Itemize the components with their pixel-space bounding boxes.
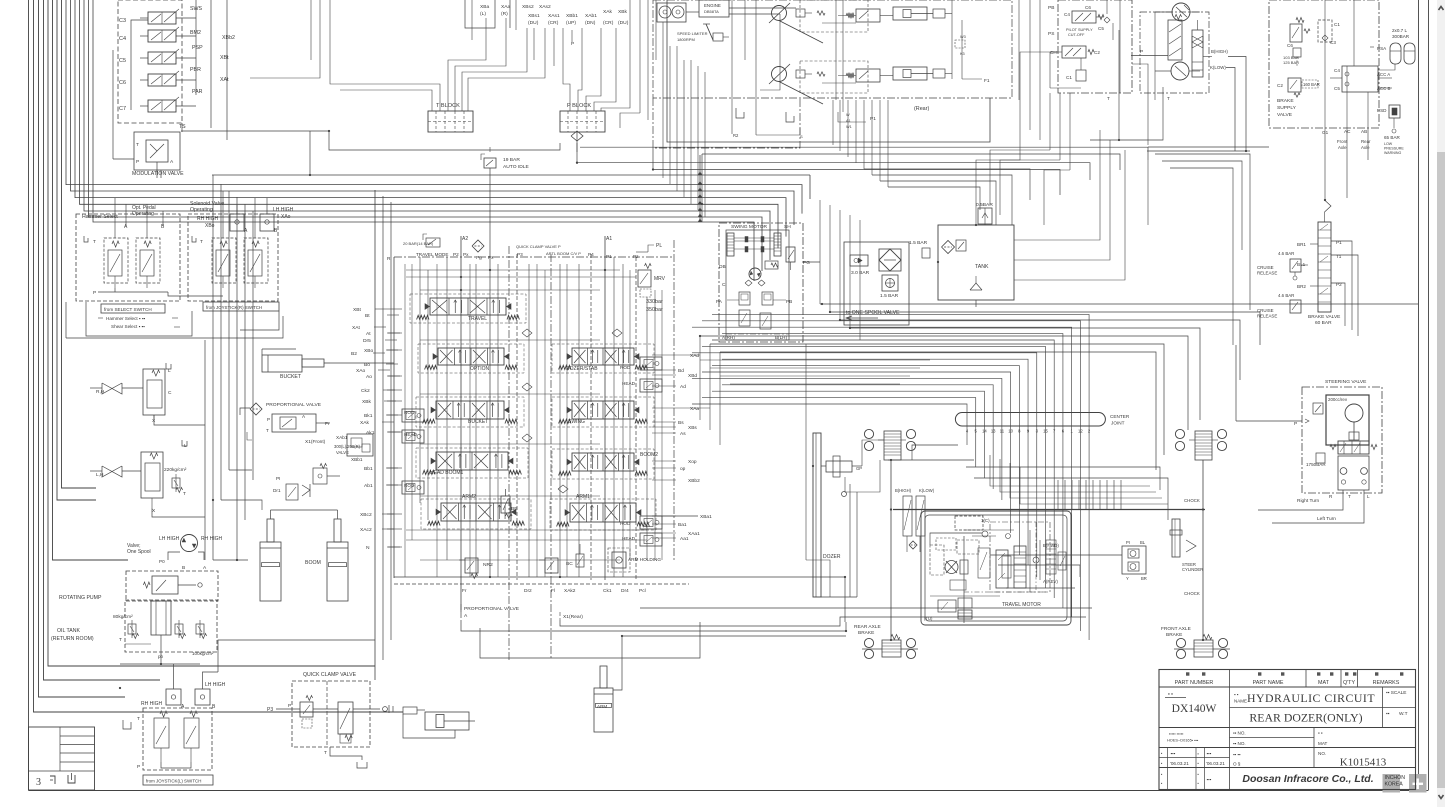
port label PAR	[192, 89, 203, 95]
net label (DU)	[528, 20, 539, 26]
wires t block up	[250, 0, 440, 111]
net label At	[366, 331, 400, 337]
wire right edge verticals	[1014, 12, 1155, 280]
svg-text:Left Turn: Left Turn	[1317, 516, 1336, 522]
valve DOZER/STAB	[559, 348, 648, 372]
svg-text:CUT-OFF: CUT-OFF	[1068, 33, 1085, 37]
svg-text:BOOM2: BOOM2	[640, 452, 658, 458]
wire bucket link	[240, 363, 394, 415]
wire bsv down links	[1325, 60, 1412, 200]
label X1 Rear	[560, 612, 583, 620]
wire main bus	[75, 0, 786, 237]
svg-text:W3: W3	[960, 35, 966, 39]
wire tr extra h	[864, 140, 1260, 240]
pump regulator 1	[838, 9, 880, 22]
svg-text:K3: K3	[960, 52, 965, 56]
svg-text:▪ ▪: ▪ ▪	[1318, 731, 1323, 736]
svg-text:XBb1: XBb1	[566, 13, 578, 19]
valve BOOM1	[423, 452, 522, 476]
label 1C	[955, 516, 990, 530]
svg-text:B: B	[182, 565, 185, 571]
solenoid valve C5	[119, 49, 196, 64]
net label XAa1	[688, 531, 700, 537]
wire lh bottom routes	[51, 468, 140, 688]
servo piston 1	[893, 7, 952, 20]
net label Bk1	[364, 413, 398, 419]
svg-text:HEAD: HEAD	[622, 381, 636, 386]
bsv c4 c5 block	[1334, 66, 1392, 92]
check pi dr1	[273, 464, 340, 501]
svg-text:Bk1: Bk1	[364, 413, 373, 419]
wire left bus line	[44, 0, 161, 680]
svg-text:LOW: LOW	[1384, 142, 1393, 146]
valve SWING	[559, 401, 648, 425]
valve NR2	[459, 558, 493, 579]
label T BLOCK	[436, 103, 460, 109]
wire drawing right border inner	[1418, 0, 1420, 791]
pilot valve c4	[1072, 11, 1104, 23]
travel mode group	[403, 234, 469, 257]
net label XBs	[688, 425, 697, 431]
wire left bus line	[34, 0, 404, 712]
valve enclosure DOZER/STAB	[552, 344, 654, 373]
svg-text:XAa1: XAa1	[688, 531, 700, 537]
wire bus vertical x700	[699, 155, 701, 222]
check block RODa	[620, 516, 662, 529]
svg-text:ROD: ROD	[404, 483, 415, 488]
label BFWD	[1043, 543, 1059, 548]
svg-text:XAb1: XAb1	[336, 435, 348, 440]
net label Ao	[366, 374, 400, 380]
svg-text:Ak1: Ak1	[366, 430, 375, 436]
label BR2	[1297, 284, 1318, 289]
label Opt Pedal Operating	[132, 205, 156, 217]
manifold dashdot v2	[508, 246, 510, 660]
svg-text:XAt: XAt	[220, 77, 229, 83]
joystick L valve 2	[184, 711, 199, 762]
svg-text:BRAKE VALVE: BRAKE VALVE	[1308, 314, 1340, 320]
svg-text:TS: TS	[179, 124, 186, 130]
label RH HIGH XBo	[197, 216, 219, 229]
svg-text:1.5 BAR: 1.5 BAR	[909, 240, 928, 246]
label A2	[244, 228, 278, 234]
svg-text:R2: R2	[733, 133, 739, 138]
wire bottom steps right	[461, 608, 1092, 631]
svg-text:PILOT SUPPLY: PILOT SUPPLY	[1066, 28, 1093, 32]
svg-text:C: C	[722, 282, 726, 288]
label A	[124, 224, 128, 230]
wire tr verticals	[833, 0, 1040, 163]
wire drawing bottom border	[29, 790, 1429, 792]
svg-text:OIL TANK: OIL TANK	[57, 628, 81, 634]
label left turn	[1317, 516, 1336, 522]
wire brake valve right	[1245, 241, 1358, 336]
svg-text:One Spool: One Spool	[127, 549, 151, 555]
svg-text:K1015413: K1015413	[1340, 757, 1387, 769]
label 100kg	[192, 651, 214, 656]
svg-text:As: As	[680, 431, 686, 437]
label LH HIGH 2	[205, 682, 226, 688]
svg-text:Front: Front	[1337, 139, 1348, 144]
svg-text:XAk2: XAk2	[564, 588, 576, 594]
wire swing bottom	[726, 333, 789, 335]
svg-text:T: T	[137, 716, 140, 722]
svg-text:(R): (R)	[501, 11, 508, 17]
svg-text:C2: C2	[1094, 50, 1100, 55]
wire bsv verticals	[1325, 0, 1390, 130]
swing motor gears	[727, 233, 781, 256]
label PSA	[1370, 46, 1387, 51]
swing relief pair	[727, 292, 786, 305]
label BR1	[1297, 242, 1318, 247]
svg-text:14: 14	[982, 429, 987, 434]
wire pilot inner	[1050, 0, 1120, 93]
net label Ad	[680, 384, 686, 390]
net label XAk	[360, 420, 394, 426]
quick clamp box	[292, 681, 370, 747]
label 1.5 bar top	[909, 240, 930, 258]
svg-text:P: P	[137, 764, 140, 770]
wire swing links	[712, 262, 820, 336]
port label BM2	[190, 30, 235, 41]
label C5 C3	[1098, 17, 1110, 31]
net label Bd	[678, 368, 684, 374]
accumulators	[1390, 28, 1415, 64]
valve enclosure SWING	[552, 397, 654, 427]
T block	[428, 111, 473, 132]
front axle brake block	[1174, 635, 1230, 659]
label front axle	[1337, 139, 1348, 150]
wire rh-lh links	[152, 340, 205, 560]
svg-text:Pg: Pg	[476, 255, 482, 260]
bk valve stack	[903, 496, 925, 552]
net label XAs2	[539, 4, 551, 10]
svg-text:C4: C4	[119, 36, 126, 42]
svg-text:C2: C2	[1277, 83, 1283, 88]
rear axle shaft	[890, 460, 892, 640]
steering inner	[1326, 395, 1369, 445]
net label As	[680, 431, 686, 437]
svg-text:C7: C7	[119, 106, 126, 112]
tm shaft	[958, 536, 972, 623]
tm valve column	[996, 546, 1026, 588]
joystick valve sel 1	[212, 238, 236, 288]
swing relief pair 2	[739, 310, 771, 329]
net label Ak1	[366, 430, 400, 436]
check block ROD2	[402, 481, 424, 494]
net label XBs1	[528, 13, 540, 19]
joystick select box	[188, 214, 278, 301]
cruise release 1	[1257, 251, 1308, 280]
svg-text:A(REV): A(REV)	[1043, 579, 1058, 584]
svg-text:4.6 BAR: 4.6 BAR	[1278, 293, 1294, 298]
svg-text:ACC B: ACC B	[1377, 86, 1390, 91]
svg-text:XAk: XAk	[603, 9, 613, 15]
svg-text:Dr5: Dr5	[363, 338, 371, 344]
svg-text:R,H: R,H	[96, 389, 105, 395]
svg-text:TRAVEL: TRAVEL	[468, 316, 487, 322]
bsv c2	[1277, 78, 1320, 97]
net label Aa1	[680, 536, 689, 542]
svg-text:PSP: PSP	[192, 45, 203, 51]
svg-text:B(FWD): B(FWD)	[1043, 543, 1059, 548]
svg-text:TANK: TANK	[975, 264, 989, 270]
pump solid frame	[667, 0, 990, 142]
from JOYSTICK R box	[203, 302, 279, 311]
label PROPORTIONAL VALVE A	[461, 604, 520, 620]
svg-text:HEAD: HEAD	[404, 432, 418, 437]
manifold bottom ports	[462, 588, 646, 594]
svg-text:O §: O §	[1233, 762, 1241, 767]
wire bottom-left joystick routes	[131, 560, 380, 768]
solenoid valve C6	[119, 71, 196, 86]
wire main bus	[89, 0, 763, 271]
svg-text:W1: W1	[846, 125, 852, 129]
svg-text:NO.: NO.	[1318, 751, 1326, 756]
acc valve2	[1192, 20, 1203, 77]
net label XBc2	[360, 512, 394, 518]
svg-text:Fr: Fr	[462, 588, 467, 594]
wire dozer links	[821, 440, 884, 492]
svg-text:1800RPM: 1800RPM	[677, 37, 695, 42]
svg-text:▪▪▪▪▪ ▪▪▪▪▪: ▪▪▪▪▪ ▪▪▪▪▪	[1169, 732, 1184, 736]
wire acc valve outputs	[1090, 30, 1250, 151]
svg-text:'06.03.21: '06.03.21	[1206, 761, 1225, 766]
svg-text:XBb2: XBb2	[688, 478, 700, 484]
svg-text:from JOYSTICK(R) SWITCH: from JOYSTICK(R) SWITCH	[206, 305, 262, 310]
svg-text:T: T	[1348, 494, 1351, 499]
svg-text:TRAVEL MODE: TRAVEL MODE	[416, 252, 448, 257]
wire left bus line	[48, 0, 375, 666]
svg-text:▪▪: ▪▪	[1386, 712, 1390, 717]
pilot supply box	[1058, 0, 1132, 93]
rear axle brake block	[862, 635, 918, 659]
front axle wheels right	[1217, 429, 1226, 450]
check block RODr	[620, 357, 662, 370]
svg-text:350bar: 350bar	[646, 307, 663, 313]
manifold top dashed	[394, 256, 674, 258]
steering spool	[1330, 441, 1377, 454]
p block check	[571, 131, 583, 152]
valve ARM1	[557, 494, 650, 527]
wire weave above center joint	[692, 314, 1089, 426]
scrollbar down arrow	[1439, 795, 1444, 799]
svg-text:Right Turn: Right Turn	[1297, 498, 1319, 504]
label A1	[606, 236, 612, 242]
rotating pump label	[59, 595, 102, 601]
svg-text:T: T	[119, 637, 122, 643]
solenoid select box 1	[230, 205, 244, 231]
svg-text:XBt: XBt	[353, 307, 362, 313]
steer cylinder	[1170, 519, 1196, 557]
svg-text:XBt: XBt	[220, 55, 229, 61]
wire left bus line	[53, 0, 129, 560]
svg-text:X1(Front): X1(Front)	[305, 439, 326, 445]
wire main bus	[212, 175, 810, 199]
svg-text:Px: Px	[463, 252, 469, 257]
svg-text:P0: P0	[159, 559, 165, 564]
svg-text:REMARKS: REMARKS	[1373, 680, 1400, 686]
svg-text:XBk: XBk	[618, 9, 628, 15]
joystick valve hammer 1	[104, 238, 128, 288]
label BRAKE VALVE 60 BAR	[1308, 314, 1340, 326]
svg-text:P1: P1	[606, 254, 612, 259]
svg-text:(DN): (DN)	[585, 20, 596, 26]
svg-text:XAa: XAa	[501, 4, 511, 10]
qc spool	[338, 702, 353, 743]
svg-text:C5: C5	[1098, 26, 1104, 31]
svg-text:XBo: XBo	[364, 348, 374, 354]
svg-text:Dr1: Dr1	[273, 488, 281, 493]
valve OPTION	[425, 348, 518, 372]
wire sol stack feed	[131, 20, 148, 110]
svg-text:P4: P4	[588, 252, 594, 257]
svg-text:Aa1: Aa1	[680, 536, 689, 542]
svg-text:Pcl: Pcl	[639, 588, 646, 594]
swing diamonds	[745, 280, 765, 286]
label quick clamp p	[516, 244, 561, 257]
svg-text:LH HIGH: LH HIGH	[205, 682, 226, 688]
svg-text:BRAKE: BRAKE	[858, 630, 874, 636]
pump box dashed	[125, 600, 217, 652]
auto idle valve	[481, 147, 529, 170]
wire modvalve down	[156, 170, 158, 178]
wire long h1	[181, 131, 560, 150]
label F1	[962, 78, 990, 84]
svg-text:T: T	[136, 142, 139, 148]
net label (L)	[480, 11, 486, 17]
hammer select box	[76, 214, 180, 301]
valve enclosure ARM1	[550, 499, 656, 530]
wire pump shaft	[1155, 12, 1200, 71]
wire acc lines	[1330, 64, 1395, 78]
svg-text:CHOCK: CHOCK	[1184, 498, 1200, 503]
valve 300 200	[334, 434, 373, 462]
check diamonds row	[522, 329, 622, 493]
net label XBa1	[700, 514, 712, 520]
wire big bottom route	[66, 688, 430, 700]
svg-text:'06.03.21: '06.03.21	[1170, 761, 1189, 766]
svg-text:Hammer Select ▪ ▪▪: Hammer Select ▪ ▪▪	[106, 316, 145, 321]
scrollbar up arrow	[1439, 7, 1444, 11]
boom cylinder right	[327, 519, 348, 601]
svg-text:ROD: ROD	[404, 410, 415, 415]
svg-text:Xop: Xop	[688, 459, 697, 465]
solenoid valve block outline	[118, 0, 182, 123]
label TU	[924, 616, 933, 621]
svg-text:Ck2: Ck2	[361, 388, 370, 394]
svg-text:PL: PL	[656, 243, 662, 249]
wire manifold extra verticals	[405, 264, 662, 577]
svg-text:300BAR: 300BAR	[1392, 34, 1410, 39]
wire manifold-weave links	[652, 322, 845, 622]
svg-text:(L): (L)	[480, 11, 486, 17]
svg-text:4.6 BAR: 4.6 BAR	[1278, 251, 1294, 256]
svg-text:160 BAR: 160 BAR	[1303, 82, 1320, 87]
svg-text:PSA: PSA	[1377, 46, 1387, 51]
svg-text:LH HIGH: LH HIGH	[159, 536, 180, 542]
net label XAk	[603, 9, 613, 15]
svg-text:BP: BP	[511, 506, 518, 512]
wire left col verticals	[213, 175, 391, 680]
wire arm cyl steps	[480, 622, 846, 690]
one spool valve box	[126, 571, 218, 601]
svg-text:C6: C6	[1085, 5, 1091, 10]
svg-text:BM2: BM2	[190, 30, 201, 36]
svg-text:VALVE: VALVE	[1277, 112, 1293, 118]
svg-text:QUICK CLAMP VALVE: QUICK CLAMP VALVE	[303, 672, 357, 678]
net label op	[680, 467, 686, 472]
wire sol stack vertical	[196, 0, 227, 140]
svg-text:200cc/rev: 200cc/rev	[1328, 397, 1348, 402]
node TS	[179, 123, 186, 132]
manifold bottom	[394, 577, 689, 584]
svg-text:F1: F1	[984, 78, 990, 84]
psd switch	[1377, 105, 1400, 133]
gear pump 2	[1171, 62, 1189, 80]
scrollbar track	[1437, 0, 1445, 807]
wire left bus line	[39, 0, 126, 697]
tank breather	[970, 276, 982, 290]
label FRONT AXLE BRAKE	[1161, 626, 1191, 638]
svg-text:(DU): (DU)	[618, 20, 629, 26]
svg-text:DB: DB	[719, 264, 726, 270]
net label (R)	[501, 11, 508, 17]
label AREV	[1043, 579, 1058, 584]
svg-text:BRAKE: BRAKE	[1166, 632, 1182, 638]
svg-text:13: 13	[991, 429, 996, 434]
svg-text:C5: C5	[119, 58, 126, 64]
breather 1.5 BAR	[880, 275, 899, 299]
svg-text:L,H: L,H	[96, 472, 104, 478]
wire steering	[1236, 345, 1445, 523]
svg-text:(CR): (CR)	[603, 20, 614, 26]
svg-text:2x0.7 L: 2x0.7 L	[1392, 28, 1408, 33]
svg-text:W.T: W.T	[1399, 711, 1408, 717]
label STEERING VALVE	[1325, 379, 1367, 385]
swing motor outer box	[719, 223, 803, 342]
svg-text:PART NAME: PART NAME	[1253, 680, 1284, 686]
svg-text:BUCKET: BUCKET	[468, 419, 488, 425]
title block	[1159, 670, 1416, 790]
svg-text:XAo: XAo	[356, 368, 366, 374]
brake supply box	[1269, 0, 1379, 128]
wire left labels to manifold	[387, 309, 402, 547]
label right turn	[1297, 494, 1370, 504]
joystick L valve 1	[154, 711, 169, 762]
svg-text:▪▪ SCALE: ▪▪ SCALE	[1386, 690, 1406, 696]
pump dashed enclosures	[800, 0, 868, 93]
manifold boundary right dashdot	[673, 240, 675, 560]
wire hammer outline	[86, 302, 279, 336]
svg-text:C: C	[168, 390, 172, 396]
svg-text:XBb1: XBb1	[351, 457, 363, 462]
svg-text:ARM: ARM	[597, 704, 607, 709]
svg-text:BOOM: BOOM	[305, 560, 321, 566]
svg-text:REAR DOZER(ONLY): REAR DOZER(ONLY)	[1249, 711, 1362, 725]
wire pump out	[120, 652, 200, 664]
net label Ba1	[678, 522, 687, 528]
svg-text:PI: PI	[276, 476, 280, 481]
svg-text:PS: PS	[1048, 31, 1054, 37]
svg-text:XAd: XAd	[690, 353, 699, 359]
joystick L box	[143, 708, 212, 770]
net label XBo	[364, 348, 398, 354]
svg-text:XBc2: XBc2	[360, 512, 372, 518]
pump regulator 2	[838, 69, 880, 82]
wire main bus	[93, 0, 754, 281]
svg-text:C1: C1	[1334, 22, 1340, 27]
